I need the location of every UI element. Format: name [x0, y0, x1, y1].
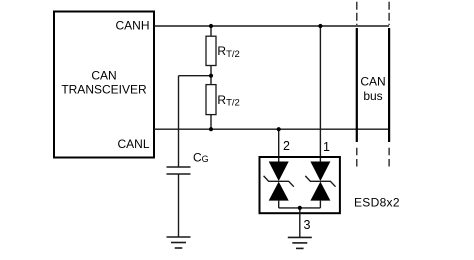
wire R1 to R2 [210, 66, 212, 85]
ground (capacitor) [167, 237, 191, 248]
svg-text:RT/2: RT/2 [217, 44, 239, 60]
wire ESD pin 2 from CANL [278, 129, 280, 161]
wire D1 to common node [278, 201, 280, 208]
wire capacitor to ground [178, 174, 180, 237]
svg-text:CG: CG [193, 151, 209, 165]
CAN bus line right dashed top [388, 2, 390, 25]
junction node CANH/R1 [209, 24, 213, 28]
svg-text:CAN: CAN [360, 74, 385, 88]
wire ESD pin 1 from CANH [319, 26, 321, 162]
CAN bus line left dashed top [356, 2, 358, 25]
resistor R_T/2 (lower) [206, 85, 216, 115]
junction node center tap [209, 74, 213, 78]
svg-text:1: 1 [323, 140, 330, 154]
svg-text:CAN: CAN [91, 69, 116, 83]
CAN bus line left dashed bottom [356, 148, 358, 167]
svg-text:CANH: CANH [115, 19, 149, 33]
svg-text:3: 3 [304, 218, 311, 232]
ESD box U2 [260, 157, 340, 213]
wire CANL [154, 128, 389, 130]
junction node CANL/pin2 [277, 127, 281, 131]
svg-text:RT/2: RT/2 [217, 93, 239, 109]
transceiver name label [61, 69, 147, 97]
CAN bus line right (solid) [388, 28, 390, 142]
wire common connector [279, 207, 321, 209]
wire D2 to common node [319, 201, 321, 208]
wire R2 to CANL [210, 115, 212, 130]
svg-text:TRANSCEIVER: TRANSCEIVER [61, 83, 147, 97]
ground (ESD) [288, 237, 312, 248]
transceiver U1 box [54, 12, 154, 158]
wire center tap down to capacitor [178, 76, 180, 167]
svg-text:ESD8x2: ESD8x2 [354, 195, 400, 209]
wire CANH to R1 [210, 26, 212, 36]
svg-text:bus: bus [363, 89, 382, 103]
resistor R_T/2 (upper) [206, 36, 216, 65]
junction node common pin3 [298, 206, 302, 210]
junction node CANL/R2 [209, 127, 213, 131]
TVS diode D1 (left) [264, 162, 294, 201]
svg-text:2: 2 [283, 139, 290, 153]
wire pin 3 to ground [299, 208, 301, 238]
wire center tap horizontal [179, 75, 212, 77]
svg-text:CANL: CANL [117, 137, 149, 151]
label CAN bus [360, 74, 385, 103]
capacitor CG [167, 167, 191, 174]
TVS diode D2 (right) [305, 162, 335, 201]
CAN bus line right dashed bottom [388, 148, 390, 167]
wire CANH [154, 25, 389, 27]
CAN bus line left (solid) [356, 28, 358, 142]
junction node CANH/pin1 [318, 24, 322, 28]
